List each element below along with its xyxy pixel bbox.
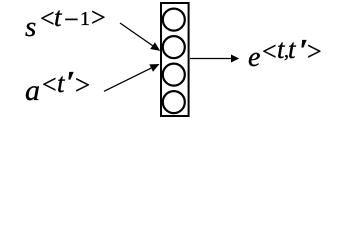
label a<t'> — [25, 76, 40, 106]
neuron circle 3 — [163, 64, 185, 86]
arrow from box to e<t,t'> — [190, 55, 239, 63]
arrow from a<t'> into box — [104, 64, 160, 91]
neuron circle 2 — [163, 36, 185, 58]
label s<t-1> — [25, 13, 36, 42]
neuron circle 1 — [163, 9, 185, 31]
arrow from s<t-1> into box — [120, 23, 160, 51]
attention dense-layer box — [161, 3, 189, 116]
neuron circle 4 — [163, 91, 185, 113]
label e<t,t'> — [248, 44, 260, 72]
